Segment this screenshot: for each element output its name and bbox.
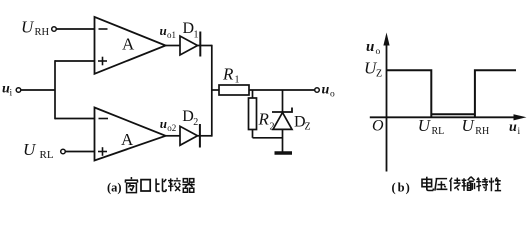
svg-text:U: U: [462, 116, 476, 135]
caption (b) text: [392, 181, 410, 195]
svg-text:2: 2: [193, 117, 198, 128]
node u_o2 label: [160, 116, 177, 133]
op-amp U2: [95, 108, 166, 161]
svg-text:): ): [406, 181, 410, 195]
svg-text:u: u: [160, 116, 167, 131]
svg-text:U: U: [21, 18, 35, 37]
svg-text:o2: o2: [167, 123, 176, 133]
terminal u_o: [315, 83, 335, 100]
caption (a) CJK char jiao: [168, 178, 181, 191]
svg-text:A: A: [122, 35, 135, 54]
graph label u_i: [509, 120, 521, 137]
diode D2: [180, 108, 200, 148]
wire D2 cathode to junction: [198, 135, 212, 137]
svg-text:Z: Z: [376, 69, 382, 80]
svg-text:RH: RH: [475, 126, 489, 137]
node u_o1 label: [160, 23, 177, 40]
graph x-axis: [370, 114, 527, 120]
svg-text:1: 1: [194, 30, 199, 41]
svg-text:o: o: [376, 47, 381, 57]
graph label u_o: [366, 39, 381, 57]
caption (b) CJK char chuan: [450, 178, 461, 192]
graph label O: [372, 118, 384, 135]
wire U_RH to op-amp 1 inverting input: [56, 28, 94, 30]
wire junction to R1: [212, 89, 219, 91]
wire R2 bottom to DZ bottom: [253, 137, 283, 139]
svg-text:U: U: [23, 140, 37, 159]
svg-text:RH: RH: [35, 27, 50, 38]
terminal U_RH: [21, 18, 56, 39]
caption (b) CJK char ya: [435, 179, 448, 191]
svg-text:A: A: [121, 130, 134, 149]
svg-text:R: R: [222, 65, 234, 84]
wire op-amp 1 output to D1: [166, 45, 180, 47]
ground: [275, 151, 293, 154]
zener diode DZ: [272, 90, 311, 152]
resistor R2: [249, 90, 275, 138]
svg-text:RL: RL: [432, 126, 445, 137]
svg-text:U: U: [418, 116, 432, 135]
caption (b) CJK char shu: [462, 177, 475, 191]
wire D1 cathode to junction: [198, 45, 212, 47]
svg-text:R: R: [258, 110, 270, 129]
svg-text:u: u: [160, 23, 167, 38]
wire u_i node to both op-amp inputs: [21, 60, 95, 119]
wire junction vertical D1-D2: [211, 45, 213, 137]
diode D1: [180, 20, 200, 57]
svg-text:o: o: [330, 90, 335, 100]
svg-text:Z: Z: [305, 122, 311, 133]
graph label U_RH: [462, 116, 490, 137]
wire op-amp 2 output to D2: [166, 135, 180, 137]
svg-text:D: D: [183, 20, 195, 37]
caption (b) CJK char dian: [422, 177, 433, 191]
svg-text:D: D: [182, 108, 194, 125]
svg-text:u: u: [322, 83, 330, 98]
svg-text:o1: o1: [167, 30, 176, 40]
svg-text:(: (: [392, 181, 396, 195]
resistor R1: [219, 65, 249, 96]
caption (b) CJK char te: [476, 178, 488, 192]
graph label U_Z: [364, 59, 382, 80]
svg-text:u: u: [366, 39, 374, 55]
wire U_RL to op-amp 2 non-inverting input: [65, 151, 94, 153]
op-amp U1: [95, 17, 166, 74]
svg-text:b: b: [398, 181, 405, 195]
caption (a) text: [107, 181, 122, 195]
svg-text:(a): (a): [107, 181, 122, 195]
svg-text:1: 1: [235, 75, 240, 86]
transfer curve: [387, 70, 517, 117]
caption (a) CJK char kou: [141, 180, 150, 191]
caption (a) CJK char qi: [182, 179, 194, 193]
caption (b) CJK char xing: [489, 177, 501, 191]
svg-text:u: u: [509, 120, 517, 135]
graph label U_RL: [418, 116, 444, 137]
svg-text:i: i: [10, 89, 13, 99]
caption (a) CJK char bi: [156, 179, 166, 192]
wire R1 to output terminal: [249, 89, 315, 91]
terminal U_RL: [23, 140, 65, 161]
caption (a) CJK char chuang: [125, 177, 138, 193]
terminal u_i: [2, 82, 21, 99]
svg-text:i: i: [518, 127, 521, 137]
svg-text:RL: RL: [40, 149, 54, 161]
graph y-axis: [383, 33, 389, 172]
svg-text:O: O: [372, 118, 384, 135]
